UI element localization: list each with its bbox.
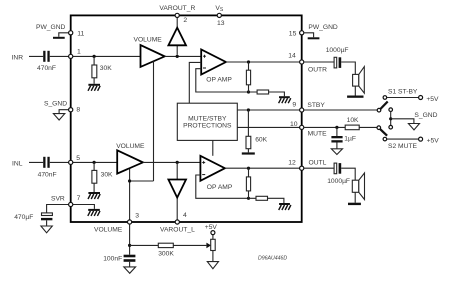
switch S2 blade [380, 129, 387, 136]
pin 5 circle [69, 160, 73, 164]
speaker OUTR [353, 67, 365, 94]
svg-text:9: 9 [292, 101, 296, 108]
IC U1 outline [71, 15, 302, 222]
pin 2 circle [175, 13, 179, 17]
wire OUTL to speaker [304, 168, 355, 203]
ground triangle (S_GND right) [408, 124, 419, 130]
capacitor 1uF [331, 127, 342, 148]
node STBY junction [247, 108, 250, 111]
wire PW_GND pin 15 [304, 33, 314, 38]
wire OUTR to speaker [304, 62, 356, 96]
potentiometer wiper arrow [206, 243, 211, 249]
node VAROUT_R junction [176, 55, 179, 58]
ground hatched (30K INL) [88, 192, 100, 199]
wire VOLUME L output [143, 161, 201, 163]
wire SVR internal [73, 205, 95, 209]
resistor to ground L horizontal [249, 196, 284, 203]
wire S1 to +5V [387, 97, 419, 99]
ground hatched (op amp L) [279, 203, 291, 210]
node feedback L bottom [247, 197, 250, 200]
resistor 30K (INL) [92, 162, 97, 192]
wire STBY pin 9 [237, 109, 299, 111]
svg-text:INR: INR [12, 54, 24, 61]
wire STBY external [304, 109, 377, 111]
svg-text:300K: 300K [158, 250, 174, 257]
node MUTE junction [335, 126, 338, 129]
svg-text:OUTL: OUTL [309, 159, 327, 166]
label plus input (L) [202, 161, 205, 164]
buffer VAROUT_R triangle [168, 17, 186, 54]
node feedback R bottom [247, 90, 250, 93]
svg-text:S1 ST-BY: S1 ST-BY [388, 88, 418, 95]
svg-text:10: 10 [290, 121, 298, 128]
svg-text:5: 5 [76, 155, 80, 162]
wire S2 to +5V [387, 138, 419, 140]
svg-text:OP AMP: OP AMP [206, 77, 232, 84]
op-amp OP AMP R triangle [201, 50, 226, 75]
node INL junction [93, 161, 96, 164]
label plus input (R) [203, 55, 206, 58]
svg-text:VS: VS [215, 5, 223, 13]
wire feedback loop R [196, 69, 249, 92]
pin 12 circle [300, 166, 304, 170]
pin 15 circle [300, 31, 304, 35]
resistor feedback R vertical [246, 62, 250, 92]
svg-text:SVR: SVR [51, 196, 65, 203]
svg-text:60K: 60K [255, 137, 267, 144]
svg-text:STBY: STBY [307, 102, 325, 109]
svg-text:470nF: 470nF [37, 65, 56, 72]
svg-text:7: 7 [77, 195, 81, 202]
switch S1 contact top [383, 96, 387, 100]
ground power bar (pin 15) [308, 37, 320, 39]
svg-text:14: 14 [288, 53, 296, 60]
wire VOLUME R output [165, 55, 202, 57]
pin 9 circle [300, 108, 304, 112]
switch S1 blade [380, 102, 387, 110]
ground triangle (1uF) [331, 149, 342, 155]
switch S2 contact bottom [383, 137, 387, 141]
ground triangle (470uF) [41, 226, 52, 233]
wire volume control net [130, 61, 154, 222]
svg-text:1: 1 [77, 48, 81, 55]
node volume control junction [128, 179, 131, 182]
svg-text:11: 11 [77, 31, 84, 38]
wire mute control to op amp R [189, 62, 201, 103]
wire SVR pin 7 external [47, 205, 69, 213]
terminal +5V (S1) [419, 96, 423, 100]
wire VOLUME pin 3 to RC network [129, 224, 131, 255]
block MUTE/STBY PROTECTIONS [177, 103, 237, 140]
wire S_GND pin 8 [59, 110, 69, 114]
wire OP AMP L output to pin 12 [225, 167, 300, 169]
svg-text:PW_GND: PW_GND [36, 24, 66, 31]
node rail to S_GND [389, 117, 392, 120]
switch S2 pivot [377, 126, 381, 130]
capacitor 1000uF (OUTL) [334, 163, 341, 174]
ground triangle (pin 8) [53, 114, 64, 120]
resistor 10K [345, 125, 359, 130]
node VAROUT_L junction [176, 161, 179, 164]
ground triangle (pot) [207, 262, 218, 269]
svg-text:D96AU446D: D96AU446D [258, 256, 287, 262]
svg-text:PW_GND: PW_GND [308, 24, 338, 31]
svg-text:10K: 10K [347, 117, 359, 124]
node feedback L top [247, 167, 250, 170]
resistor 30K (INR) [92, 56, 97, 83]
svg-text:1µF: 1µF [344, 136, 356, 143]
terminal +5V (pot) [211, 231, 215, 235]
pin 7 circle [69, 202, 73, 206]
svg-text:S_GND: S_GND [44, 101, 67, 108]
svg-text:8: 8 [76, 107, 80, 114]
ground hatched (30K INR) [88, 84, 100, 91]
buffer VAROUT_L triangle [168, 162, 186, 220]
svg-text:12: 12 [288, 160, 296, 167]
ground bar (speaker OUTL) [348, 203, 361, 205]
wire MUTE pin 10 [237, 126, 299, 128]
wire mute control to op amp L [212, 140, 214, 155]
ground triangle (100nF) [124, 267, 136, 273]
svg-text:15: 15 [289, 31, 297, 38]
pin 3 circle [128, 220, 132, 224]
svg-text:MUTE/STBY: MUTE/STBY [188, 115, 227, 122]
svg-text:+5V: +5V [426, 96, 439, 103]
svg-text:OP AMP: OP AMP [207, 184, 233, 191]
pin 10 circle [300, 125, 304, 129]
potentiometer body [211, 235, 216, 262]
svg-text:S2 MUTE: S2 MUTE [388, 143, 418, 150]
svg-text:1000µF: 1000µF [326, 47, 349, 54]
svg-text:MUTE: MUTE [308, 131, 327, 138]
resistor feedback L vertical [246, 168, 250, 198]
svg-text:30K: 30K [101, 171, 113, 178]
svg-text:470µF: 470µF [14, 214, 33, 221]
ground bar (60K) [242, 152, 255, 154]
svg-text:+5V: +5V [205, 224, 218, 231]
resistor 60K [246, 110, 251, 152]
wire INR input [29, 55, 141, 57]
pin 8 circle [69, 108, 73, 112]
op-amp VOLUME R triangle [141, 45, 165, 67]
pin 14 circle [300, 60, 304, 64]
label minus input (L) [202, 174, 205, 176]
ground hatched (SVR internal) [88, 209, 100, 216]
svg-text:470nF: 470nF [38, 171, 57, 178]
wire rail to S_GND [391, 119, 414, 124]
svg-text:VOLUME: VOLUME [116, 143, 145, 150]
svg-text:100nF: 100nF [103, 255, 122, 262]
svg-text:+5V: +5V [427, 138, 440, 145]
resistor 300K [158, 243, 173, 247]
svg-text:1000µF: 1000µF [327, 178, 350, 185]
node feedback R top [247, 60, 250, 63]
capacitor 1000uF (OUTR) [334, 57, 341, 68]
switch common rail [389, 108, 393, 129]
capacitor 470uF (SVR) [41, 213, 52, 226]
pin 1 circle [69, 54, 73, 58]
pin 11 circle [69, 31, 73, 35]
label minus input (R) [203, 67, 206, 69]
node volume RC junction [128, 244, 131, 247]
svg-text:INL: INL [12, 160, 23, 167]
svg-text:2: 2 [183, 17, 187, 24]
ground hatched (op amp R) [279, 96, 291, 103]
svg-text:PROTECTIONS: PROTECTIONS [183, 123, 232, 130]
capacitor 470nF (INL) [43, 157, 50, 168]
pin 4 circle [175, 220, 179, 224]
pin 13 circle [217, 13, 221, 17]
svg-text:30K: 30K [100, 65, 112, 72]
op-amp OP AMP L triangle [200, 156, 225, 181]
wire feedback loop L [196, 175, 249, 198]
svg-text:OUTR: OUTR [308, 66, 327, 73]
ground power bar (pin 11) [53, 37, 65, 39]
wire OP AMP R output to pin 14 [226, 61, 300, 63]
terminal +5V (S2) [419, 137, 423, 141]
node INR junction [93, 55, 96, 58]
switch S1 pivot [377, 108, 381, 112]
wire 300K to pot [130, 244, 207, 246]
svg-text:VOLUME: VOLUME [134, 36, 163, 43]
ground bar (speaker OUTR) [347, 96, 363, 98]
svg-text:3: 3 [135, 212, 139, 219]
svg-text:13: 13 [217, 20, 225, 27]
svg-text:S_GND: S_GND [414, 112, 437, 119]
svg-text:VAROUT_R: VAROUT_R [159, 5, 195, 12]
op-amp VOLUME L triangle [117, 150, 143, 173]
wire INL input [29, 161, 117, 163]
resistor to ground R horizontal [249, 90, 285, 96]
svg-text:VAROUT_L: VAROUT_L [160, 226, 195, 233]
wire MUTE external [304, 126, 377, 128]
speaker OUTL [352, 173, 364, 200]
wire PW_GND pin 11 [59, 33, 69, 37]
capacitor 100nF [124, 255, 136, 267]
svg-text:VOLUME: VOLUME [94, 226, 123, 233]
svg-text:4: 4 [183, 212, 187, 219]
capacitor 470nF (INR) [43, 51, 50, 62]
